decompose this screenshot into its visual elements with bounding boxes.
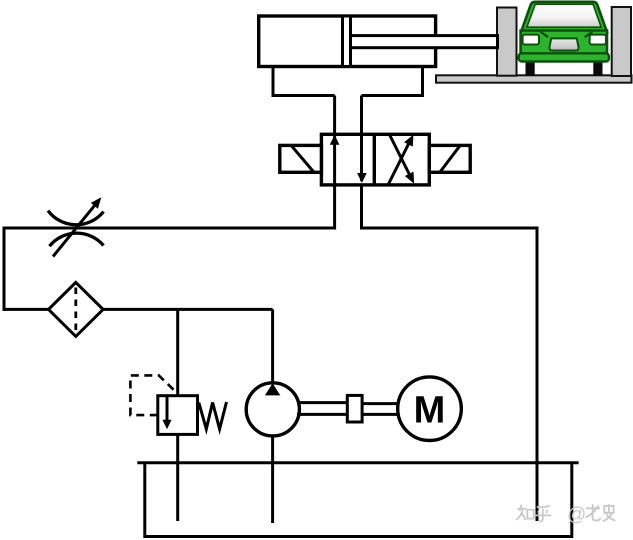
drive shaft right pair <box>362 402 399 405</box>
relief valve internal arrowhead <box>162 420 171 430</box>
wire: relief valve drain to tank <box>176 433 179 521</box>
wire: relief valve branch down from supply line <box>176 309 179 397</box>
wire: valve left bottom port P down <box>333 184 336 230</box>
valve left cell up-flow line <box>333 136 336 184</box>
shaft coupling <box>347 395 362 422</box>
solenoid right <box>429 145 470 172</box>
car wheel right <box>593 58 602 75</box>
electric motor M1 circle <box>398 377 462 441</box>
car hood crease right <box>585 32 593 37</box>
filter dashed element <box>74 288 77 333</box>
valve left cell down-flow line <box>360 136 363 181</box>
car headlight left <box>523 35 539 45</box>
car body <box>521 31 607 56</box>
valve right cell crossed line 2 <box>389 134 411 178</box>
solenoid left diagonal <box>292 146 314 171</box>
tank body <box>145 463 572 537</box>
pump flow triangle <box>265 383 280 395</box>
wire: valve left port B up to cylinder bracket <box>333 96 336 137</box>
cylinder mounting bracket / port manifold <box>273 67 423 96</box>
valve left cell down arrowhead <box>357 173 367 183</box>
tank top rim <box>137 461 578 464</box>
lift platform left post <box>497 8 517 76</box>
solenoid left <box>280 145 322 172</box>
directional valve V1 body <box>321 134 429 185</box>
car cabin/roof <box>521 2 607 32</box>
car hood crease left <box>540 32 548 37</box>
svg-text:M: M <box>414 390 446 432</box>
lift platform floor <box>436 75 632 82</box>
wire: return line from valve to tank, horizontal <box>362 227 539 230</box>
filter diamond <box>49 282 104 336</box>
watermark 知乎 @老史 <box>516 505 551 522</box>
valve right cell arrow up-right <box>404 135 413 147</box>
hydraulic cylinder C1 body <box>259 16 436 67</box>
svg-text:@: @ <box>567 505 586 526</box>
wire: valve right port A up to cylinder bracket <box>360 96 363 137</box>
relief valve spring <box>199 402 227 429</box>
valve left cell up arrowhead <box>330 135 340 145</box>
throttle valve upper arc <box>48 211 104 225</box>
throttle valve adjustment arrow shaft <box>53 201 98 256</box>
solenoid right diagonal <box>440 146 459 171</box>
car wheel left <box>526 58 535 75</box>
relief valve internal flow line <box>166 396 169 421</box>
cylinder piston <box>343 16 351 67</box>
wire: valve right bottom port T down <box>360 184 363 230</box>
car grille <box>549 38 578 50</box>
valve right cell crossed line 1 <box>388 140 410 184</box>
wire: return line vertical into tank <box>536 227 539 522</box>
car bumper <box>519 53 609 61</box>
pump P1 circle <box>246 383 299 436</box>
relief valve body <box>158 396 198 435</box>
throttle valve lower arc <box>50 233 104 246</box>
throttle valve arrowhead <box>91 197 102 208</box>
car headlight right <box>590 35 606 45</box>
drive shaft left pair <box>297 401 348 404</box>
cylinder piston rod <box>351 36 498 48</box>
wire: pressure line horizontal through throttle valve <box>3 227 335 230</box>
car windshield <box>527 4 601 27</box>
lift platform right post <box>612 7 631 76</box>
valve right cell arrow down-right <box>405 172 414 184</box>
wire: pump suction line into tank <box>271 435 274 523</box>
valve position divider <box>373 134 376 185</box>
wire: pump pressure line up to supply line <box>271 309 274 384</box>
wire: left vertical pressure line <box>3 227 6 311</box>
wire: horizontal supply line through filter to pump <box>3 308 273 311</box>
relief valve pilot line (dashed) <box>130 375 174 415</box>
